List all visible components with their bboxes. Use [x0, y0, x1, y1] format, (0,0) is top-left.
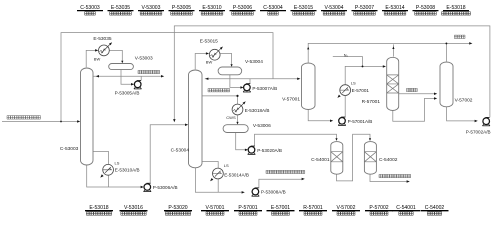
wire E-53035 to V-53003 — [109, 50, 122, 61]
wire P-57001A/B discharge through E-57001 to R-57001 — [345, 66, 383, 117]
svg-text:LS: LS — [351, 80, 356, 85]
wire C-53004 overhead to E-53015 — [195, 54, 206, 70]
svg-text:P-53006A/B: P-53006A/B — [153, 185, 178, 190]
svg-text:V-53003: V-53003 — [135, 55, 153, 61]
pump P-53020A/B — [248, 153, 256, 155]
adsorber C-54001 bed — [331, 152, 343, 162]
svg-text:R-57001: R-57001 — [362, 99, 381, 105]
adsorber C-54002 — [364, 142, 376, 175]
legend tag P-53005 — [169, 5, 195, 15]
pump P-57002A/B — [482, 125, 490, 127]
label 粗乙二醇产品 — [208, 89, 230, 92]
svg-text:C-54002: C-54002 — [379, 157, 398, 163]
wire V-53006 to P-53020A/B — [236, 133, 246, 150]
pump P-53006A/B — [144, 191, 152, 193]
vessel V-57001 — [302, 63, 316, 110]
wire R-57001 vent — [392, 44, 394, 56]
label 轻馏分出罐区 — [138, 70, 160, 73]
svg-text:P-53007A/B: P-53007A/B — [252, 86, 277, 91]
pump P-53008A/B — [252, 195, 260, 197]
legend tag V-53016 — [120, 205, 148, 215]
drum V-53003 — [109, 64, 134, 70]
pump P-53007A/B — [243, 91, 251, 93]
legend tag P-57001 — [234, 205, 262, 215]
wire P-53020A/B discharge to C-54001 — [255, 134, 337, 146]
wire C-53004 bottoms to P-53008A/B — [195, 167, 241, 193]
svg-text:V-53004: V-53004 — [245, 59, 263, 65]
svg-text:P-53008A/B: P-53008A/B — [261, 190, 286, 195]
pump P-53005A/B — [134, 88, 142, 90]
wire V-57002 vent — [445, 43, 447, 61]
svg-text:C-53004: C-53004 — [171, 148, 190, 154]
wire C-54001 bottom to C-54002 top — [337, 134, 371, 181]
wire E-53015 to V-53004 — [220, 54, 231, 65]
legend tag E-53035 — [108, 5, 134, 15]
svg-text:LS: LS — [224, 163, 229, 168]
reactor R-57001 packing — [387, 75, 399, 93]
drum V-53004 — [218, 67, 242, 75]
svg-text:V-57001: V-57001 — [282, 96, 300, 102]
label 去火炬 — [454, 35, 465, 38]
column C-53003 — [81, 68, 94, 165]
wire nitrogen line — [333, 57, 363, 67]
svg-text:E-53035: E-53035 — [93, 36, 111, 42]
wire C-54002 bottom product out — [370, 173, 407, 181]
node feed/bypass tee — [60, 120, 62, 122]
exchanger E-53015 — [209, 49, 220, 60]
wire C-53003 overhead to E-53035 — [86, 50, 95, 67]
wire C-53004 reflux / forward line to V-57001 — [205, 78, 298, 80]
svg-text:BW: BW — [206, 60, 213, 65]
exchanger E-57001 — [340, 85, 351, 96]
legend tag P-53006 — [230, 5, 256, 15]
wire reflux and light-ends line — [93, 75, 161, 77]
legend tag P-53020 — [164, 205, 192, 215]
legend tag E-57001 — [267, 205, 295, 215]
legend tag P-53008 — [413, 5, 439, 15]
drum V-53006 — [223, 125, 248, 133]
wire R-57001 bottom to V-57002 — [393, 98, 435, 121]
svg-text:C-54001: C-54001 — [311, 157, 330, 163]
legend tag E-53018 — [442, 5, 471, 15]
svg-text:P-53005A/B: P-53005A/B — [115, 90, 140, 95]
svg-text:LS: LS — [115, 160, 120, 165]
svg-text:P-57002A/B: P-57002A/B — [466, 129, 491, 134]
exchanger E-53014A/B — [213, 168, 224, 179]
svg-text:BW: BW — [94, 57, 101, 62]
adsorber C-54001 — [331, 142, 343, 175]
legend tag V-57002 — [332, 205, 360, 215]
wire C-53003 bottoms to P-53006A/B — [87, 164, 141, 188]
legend tag E-53014 — [382, 5, 408, 15]
svg-text:N₂: N₂ — [344, 53, 349, 57]
reactor R-57001 — [387, 57, 399, 110]
wire V-57002 bottom to P-57002A/B — [447, 106, 475, 121]
label 循环气 — [407, 88, 418, 91]
column C-53004 — [189, 70, 203, 168]
legend tag R-57001 — [299, 205, 327, 215]
svg-text:V-53006: V-53006 — [253, 123, 271, 129]
wire V-57001 vent to flare header — [308, 43, 469, 62]
exchanger E-53018A/B — [232, 104, 243, 115]
wire P-53007A/B discharge — [249, 79, 251, 84]
vessel V-57002 — [440, 62, 453, 107]
svg-text:CWS: CWS — [226, 115, 236, 120]
legend tag E-53010 — [199, 5, 225, 15]
legend tag C-53004 — [260, 5, 286, 15]
legend tag V-57001 — [201, 205, 229, 215]
legend tag E-53015 — [291, 5, 317, 15]
svg-text:E-57001: E-57001 — [352, 88, 370, 93]
svg-text:E-53014A/B: E-53014A/B — [224, 173, 249, 178]
svg-text:E-53010A/B: E-53010A/B — [115, 168, 140, 173]
svg-text:V-57002: V-57002 — [455, 97, 473, 103]
wire V-53003 to P-53005A/B — [121, 70, 132, 85]
svg-text:C-53003: C-53003 — [60, 146, 79, 152]
svg-text:P-57001A/B: P-57001A/B — [348, 119, 373, 124]
exchanger E-53010A/B — [103, 164, 114, 175]
wire V-53004 to P-53007A/B — [230, 75, 241, 88]
legend tag E-53018 — [85, 205, 113, 215]
legend tag V-53003 — [138, 5, 164, 15]
wire V-57001 bottom to P-57001A/B — [308, 109, 330, 121]
svg-text:P-53020A/B: P-53020A/B — [257, 148, 282, 153]
svg-text:E-53018A/B: E-53018A/B — [245, 108, 270, 113]
legend tag P-57002 — [365, 205, 393, 215]
adsorber C-54002 bed — [364, 152, 376, 162]
legend tag V-53004 — [321, 5, 347, 15]
legend tag C-53003 — [77, 5, 103, 15]
exchanger E-53035 — [99, 45, 110, 56]
wire C-53004 reboiler draw through E-53014 — [202, 162, 218, 193]
svg-text:E-53015: E-53015 — [200, 38, 218, 44]
label 返回至粗乙二醇精制单元 — [266, 170, 305, 173]
pump P-57001A/B — [338, 124, 346, 126]
legend tag C-54001 — [392, 205, 420, 215]
feed label 粗乙二醇水溶液进料 — [7, 116, 41, 120]
wire recycle from P-57002 to C-53004 feed — [174, 26, 490, 120]
wire R-57001 gas outlet to V-57002 — [399, 93, 435, 95]
wire C-53003 reboiler draw through E-53010 — [93, 151, 108, 187]
legend tag P-53007 — [352, 5, 378, 15]
wire feed line to C-53003 — [2, 120, 78, 122]
wire P-53005A/B discharge — [140, 76, 142, 80]
wire C-53004 side draw to E-53018 to V-53006 — [202, 96, 237, 123]
wire P-53006A/B discharge to C-53004 feed — [150, 125, 185, 184]
wire bypass feed to V-57001 line — [61, 33, 273, 122]
legend tag C-54002 — [421, 205, 449, 215]
label 精制乙二醇产品出装置 — [379, 174, 411, 177]
wire P-53008A/B discharge return line — [259, 179, 302, 188]
